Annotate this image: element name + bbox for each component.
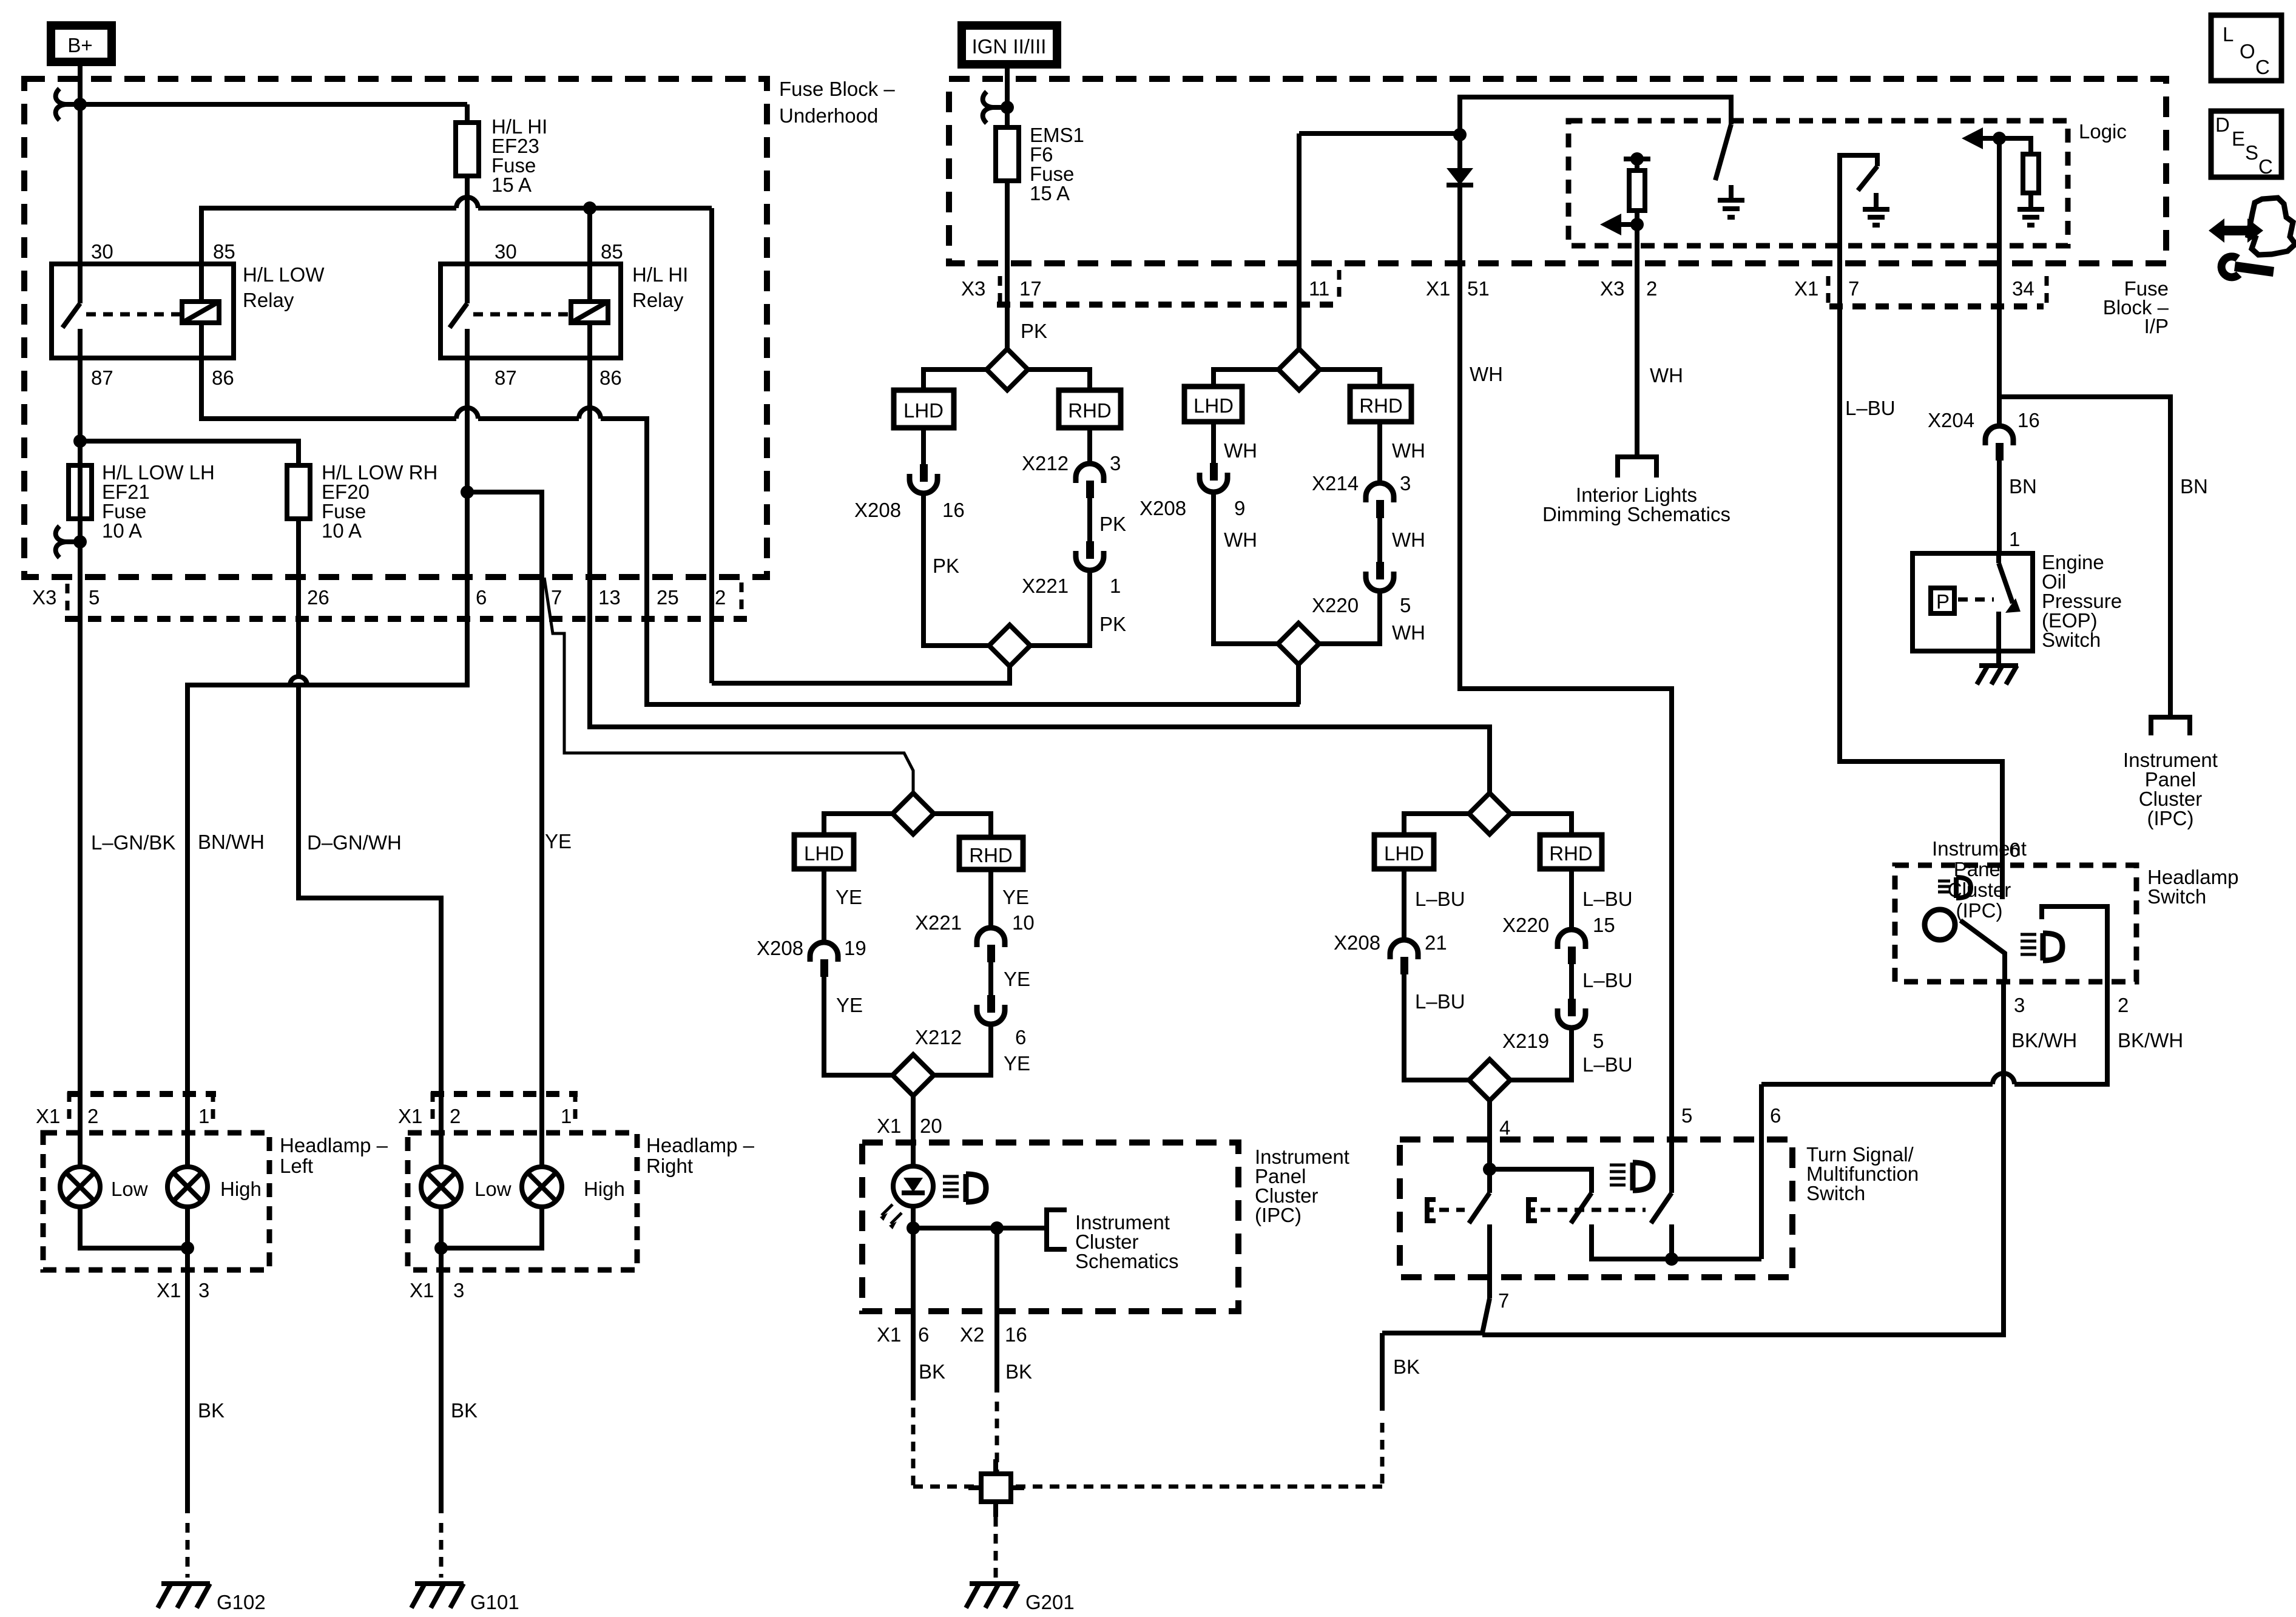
label H/L LOW LH EF21 Fuse 10 A xyxy=(102,461,215,542)
wire YE merge to IPC X1-20 xyxy=(911,1096,916,1166)
junction dot hi 87 branch xyxy=(461,485,474,499)
wire PK split to RHD xyxy=(1028,370,1090,390)
svg-text:L–BU: L–BU xyxy=(1582,1053,1633,1076)
svg-text:RHD: RHD xyxy=(1068,399,1112,422)
wire WH node up and right to logic switch xyxy=(1460,97,1731,135)
EOP switch blade with arrow xyxy=(1999,553,2021,651)
B+ power terminal box xyxy=(51,25,112,62)
junction dot B+ node xyxy=(73,98,87,111)
svg-text:51: 51 xyxy=(1467,277,1490,300)
hi relay linkage dashes xyxy=(473,312,569,317)
svg-text:BK: BK xyxy=(1393,1355,1420,1378)
labels X208 19 xyxy=(757,937,866,959)
svg-text:L–GN/BK: L–GN/BK xyxy=(91,831,175,854)
svg-text:Dimming Schematics: Dimming Schematics xyxy=(1542,503,1730,525)
svg-text:X220: X220 xyxy=(1502,914,1549,936)
svg-text:85: 85 xyxy=(213,240,235,263)
svg-text:BK/WH: BK/WH xyxy=(2011,1029,2077,1052)
RHD box YE xyxy=(959,837,1023,869)
wire X214-3 to X220-5 xyxy=(1377,518,1382,562)
L-BU split diamond xyxy=(1469,793,1510,834)
svg-text:P: P xyxy=(1936,590,1950,613)
svg-text:WH: WH xyxy=(1650,364,1683,387)
svg-text:2: 2 xyxy=(2118,994,2129,1016)
svg-text:10: 10 xyxy=(1012,911,1035,934)
svg-text:High: High xyxy=(220,1178,262,1200)
splice stubs xyxy=(968,1459,1024,1517)
svg-text:2: 2 xyxy=(87,1105,98,1127)
svg-text:2: 2 xyxy=(715,586,726,609)
svg-text:X1: X1 xyxy=(877,1115,901,1137)
double arrow icon xyxy=(2209,218,2263,243)
dashed BK to G102 xyxy=(186,1523,190,1578)
svg-text:I/P: I/P xyxy=(2144,315,2169,337)
labels X208 21 xyxy=(1334,931,1447,954)
X3 connector tick right of pin 2 xyxy=(740,582,744,609)
ticks headlamp left xyxy=(69,1092,213,1119)
labels X220 5 xyxy=(1312,594,1411,616)
svg-text:YE: YE xyxy=(1004,968,1030,990)
svg-text:10 A: 10 A xyxy=(322,519,362,542)
EOP linkage dashes xyxy=(1958,598,1994,602)
clip symbol below EF21 xyxy=(56,526,80,558)
svg-text:25: 25 xyxy=(657,586,679,609)
wire branch to cluster bracket xyxy=(913,1226,1047,1230)
svg-text:20: 20 xyxy=(920,1115,942,1137)
wire IGN stem xyxy=(1005,64,1010,127)
svg-text:Schematics: Schematics xyxy=(1075,1250,1179,1272)
low relay pin labels 30 85 87 86 xyxy=(91,240,235,389)
wire X204 to EOP pin 1 xyxy=(1997,461,2002,553)
headlamp switch dashed box xyxy=(1895,865,2136,982)
svg-text:L: L xyxy=(2223,23,2234,46)
wire L-BU X1-7 down to headlamp switch xyxy=(1840,269,2002,899)
HS lamp circle xyxy=(1925,910,1955,940)
labels X219 5 xyxy=(1502,1030,1604,1052)
fuse block I/P dashed box xyxy=(949,79,2166,263)
X3 connector row dotted line left xyxy=(65,616,747,622)
svg-text:6: 6 xyxy=(1015,1026,1026,1048)
diode on WH to X1-51 xyxy=(1447,135,1473,269)
wire pin 11 down to WH split xyxy=(1297,133,1302,349)
svg-text:Left: Left xyxy=(280,1155,313,1177)
svg-text:IGN II/III: IGN II/III xyxy=(972,35,1047,58)
hi relay 85 stub xyxy=(587,208,592,264)
X3 connector tick left xyxy=(66,584,70,610)
LOC box xyxy=(2211,15,2281,81)
low relay coil xyxy=(182,264,219,358)
svg-text:Right: Right xyxy=(646,1155,693,1177)
svg-text:BK/WH: BK/WH xyxy=(2118,1029,2183,1052)
connector X220-15 xyxy=(1558,930,1585,964)
chassis ground G102 xyxy=(158,1584,210,1608)
pin labels X1 51 xyxy=(1426,277,1490,300)
svg-text:1: 1 xyxy=(561,1105,572,1127)
junction dot BN node xyxy=(1993,132,2006,145)
svg-text:BK: BK xyxy=(919,1360,945,1383)
svg-text:G101: G101 xyxy=(470,1591,519,1613)
labels BK/WH xyxy=(2011,1029,2183,1052)
svg-text:G201: G201 xyxy=(1025,1591,1075,1613)
junction dot logic resistor bottom xyxy=(1630,218,1644,231)
svg-text:G102: G102 xyxy=(217,1591,266,1613)
junction dot left lamp xyxy=(181,1241,194,1255)
connector outline icon xyxy=(2248,198,2295,255)
connector X220-5 xyxy=(1366,562,1394,591)
svg-text:1: 1 xyxy=(1110,575,1121,597)
svg-text:X221: X221 xyxy=(1022,575,1069,597)
MF switch blade 2 xyxy=(1571,1193,1592,1223)
wire hi relay 87 to pin 6 then left high lamp xyxy=(187,358,467,1167)
pin labels X3 2 xyxy=(1600,277,1657,300)
svg-text:X212: X212 xyxy=(1022,452,1069,474)
wire YE split to RHD xyxy=(934,814,991,837)
wire pin 13 net to L-BU split (already drawn) label none xyxy=(0,0,1,1)
wire X208-9 to WH merge xyxy=(1214,492,1278,644)
svg-text:D–GN/WH: D–GN/WH xyxy=(307,831,402,854)
labels X208 9 xyxy=(1140,497,1245,519)
P box inside EOP xyxy=(1931,588,1954,613)
svg-text:X1: X1 xyxy=(36,1105,60,1127)
H/L HI relay box xyxy=(441,264,621,358)
bulb low right xyxy=(421,1167,461,1207)
chassis ground G201 xyxy=(966,1584,1018,1608)
wire MF pin4 node xyxy=(1490,1169,1592,1193)
junction dot X2-16 branch xyxy=(990,1221,1004,1235)
svg-text:17: 17 xyxy=(1019,277,1042,300)
svg-text:YE: YE xyxy=(1002,886,1029,908)
headlamp left connector dotted xyxy=(67,1091,216,1097)
wire 86 net low relay to pin 25 with hops xyxy=(201,358,1300,704)
svg-text:16: 16 xyxy=(2017,409,2040,431)
svg-text:L–BU: L–BU xyxy=(1582,969,1633,991)
H/L LOW relay box xyxy=(52,264,234,358)
svg-text:L–BU: L–BU xyxy=(1582,888,1633,910)
svg-text:X208: X208 xyxy=(757,937,803,959)
wire X3-2 down to interior lights xyxy=(1635,224,1639,457)
svg-text:3: 3 xyxy=(198,1279,209,1301)
label H/L HI Relay xyxy=(632,263,688,311)
svg-text:X2: X2 xyxy=(960,1323,984,1346)
headlamp right connector dotted xyxy=(431,1091,578,1097)
wire X2-16 down xyxy=(994,1228,999,1393)
svg-text:13: 13 xyxy=(598,586,621,609)
svg-text:87: 87 xyxy=(91,366,113,389)
connector X208-21 xyxy=(1390,940,1418,974)
svg-text:LHD: LHD xyxy=(1194,394,1234,417)
svg-text:X208: X208 xyxy=(1334,931,1380,954)
svg-text:7: 7 xyxy=(1848,277,1859,300)
IPC bracket right xyxy=(2151,717,2190,735)
connector X221-10 xyxy=(977,928,1005,962)
wire BK down to G201 dashes xyxy=(1380,1333,1385,1411)
fuse EF21 xyxy=(69,465,92,519)
svg-text:7: 7 xyxy=(551,586,562,609)
RHD box PK xyxy=(1059,390,1121,428)
WH split diamond xyxy=(1278,349,1320,390)
IGN II/III power terminal box xyxy=(962,25,1057,64)
hi relay switch stub and blade xyxy=(450,264,467,358)
MF switch blade 3 xyxy=(1651,1193,1672,1223)
bulb high left xyxy=(167,1167,208,1207)
wire X208-16 to PK merge xyxy=(923,493,988,646)
wire PK merge to pin 2 xyxy=(712,666,1010,683)
svg-text:6: 6 xyxy=(1770,1104,1781,1127)
label H/L HI EF23 Fuse 15 A xyxy=(491,115,547,196)
wire WH merge down to pin 25 line xyxy=(1296,664,1301,704)
label H/L LOW RH EF20 Fuse 10 A xyxy=(322,461,437,542)
YE merge diamond xyxy=(893,1055,934,1096)
RHD box WH xyxy=(1350,387,1411,422)
svg-text:86: 86 xyxy=(599,366,622,389)
connector X214-3 xyxy=(1366,483,1394,518)
svg-text:7: 7 xyxy=(1498,1289,1509,1312)
svg-text:2: 2 xyxy=(450,1105,461,1127)
G201 splice square xyxy=(981,1474,1011,1502)
svg-text:Low: Low xyxy=(474,1178,512,1200)
svg-text:BN/WH: BN/WH xyxy=(198,831,265,853)
svg-text:X220: X220 xyxy=(1312,594,1359,616)
svg-text:1: 1 xyxy=(198,1105,209,1127)
wire WH RHD to X214-3 xyxy=(1377,422,1382,483)
logic dashed box xyxy=(1568,121,2068,246)
wire WH LHD to X208-9 xyxy=(1211,422,1216,463)
wire thin YE jog from pin7 to YE diamond xyxy=(544,578,913,793)
svg-text:15 A: 15 A xyxy=(1030,182,1070,204)
svg-text:BN: BN xyxy=(2009,475,2037,498)
ticks headlamp right xyxy=(433,1092,575,1119)
fuse EMS1 F6 xyxy=(996,127,1019,181)
svg-text:C: C xyxy=(2255,56,2270,78)
svg-text:BK: BK xyxy=(451,1399,478,1422)
wire L-BU split to LHD xyxy=(1404,814,1469,835)
label Headlamp - Left xyxy=(280,1134,388,1177)
svg-text:WH: WH xyxy=(1392,621,1425,644)
svg-text:Logic: Logic xyxy=(2079,120,2127,143)
bulb high right xyxy=(522,1167,562,1207)
logic resistor left xyxy=(1629,159,1645,224)
svg-text:X1: X1 xyxy=(877,1323,901,1346)
svg-text:BK: BK xyxy=(1005,1360,1032,1383)
svg-text:3: 3 xyxy=(1400,472,1411,495)
wire X219-5 to L-BU merge xyxy=(1510,1028,1572,1080)
svg-text:Switch: Switch xyxy=(1806,1182,1865,1204)
svg-text:BK: BK xyxy=(198,1399,225,1422)
pin labels X1 2 1 left xyxy=(36,1105,209,1127)
svg-text:X1: X1 xyxy=(157,1279,181,1301)
svg-text:Fuse Block –: Fuse Block – xyxy=(779,78,895,100)
wire X220-5 to WH merge xyxy=(1319,591,1380,644)
label Instrument Cluster Schematics xyxy=(1075,1211,1179,1272)
wire MF pin7 jog to BK line xyxy=(1482,1298,1490,1333)
svg-text:H/L LOW: H/L LOW xyxy=(243,263,325,286)
svg-text:LHD: LHD xyxy=(1384,842,1424,865)
HS switch blade xyxy=(1960,920,2005,982)
wire PK split to LHD xyxy=(923,370,987,390)
svg-text:YE: YE xyxy=(836,886,862,908)
svg-text:Low: Low xyxy=(111,1178,148,1200)
svg-text:Switch: Switch xyxy=(2147,885,2206,908)
fuse EF20 xyxy=(287,465,310,519)
E linkage dashes 2 xyxy=(1541,1208,1646,1212)
dashed BK IPC to splice xyxy=(913,1402,1382,1487)
svg-text:85: 85 xyxy=(601,240,623,263)
svg-text:86: 86 xyxy=(212,366,234,389)
svg-text:YE: YE xyxy=(545,830,572,852)
wire X212-6 to YE merge xyxy=(934,1024,991,1075)
E symbol 1 xyxy=(1427,1200,1436,1221)
labels X208 16 xyxy=(854,499,965,521)
EOP switch box xyxy=(1913,553,2033,651)
chassis ground G101 xyxy=(411,1584,464,1608)
label Headlamp Switch xyxy=(2147,866,2238,908)
svg-text:5: 5 xyxy=(1400,594,1411,616)
svg-text:X208: X208 xyxy=(1140,497,1186,519)
tick pin 34 xyxy=(2045,276,2049,303)
wire low relay 87 to pin 5 xyxy=(78,358,83,1167)
svg-text:X204: X204 xyxy=(1928,409,1974,431)
svg-text:11: 11 xyxy=(1309,277,1329,300)
E symbol 2 xyxy=(1528,1200,1537,1221)
svg-text:RHD: RHD xyxy=(1359,394,1403,417)
fuse block underhood dashed box xyxy=(24,79,767,577)
label Fuse Block - Underhood xyxy=(779,78,895,127)
connector X208-9 xyxy=(1200,463,1227,492)
wire YE LHD to X208-19 xyxy=(822,869,826,942)
label Instrument Panel Cluster IPC right xyxy=(2123,749,2218,829)
pin labels X1 2 1 right xyxy=(398,1105,572,1127)
hi relay coil xyxy=(571,264,608,358)
svg-text:C: C xyxy=(2258,155,2273,178)
WH merge diamond xyxy=(1278,623,1319,664)
svg-text:Headlamp –: Headlamp – xyxy=(646,1134,755,1156)
svg-text:21: 21 xyxy=(1425,931,1447,954)
svg-text:30: 30 xyxy=(495,240,517,263)
svg-text:10 A: 10 A xyxy=(102,519,142,542)
pin labels X1 3 right xyxy=(410,1279,464,1301)
junction dot below EF21 xyxy=(73,535,87,549)
svg-text:19: 19 xyxy=(844,937,866,959)
dashed BK to G101 xyxy=(439,1523,444,1578)
svg-text:Relay: Relay xyxy=(243,289,294,311)
HS pin labels 3 2 xyxy=(2014,994,2129,1016)
wire LHD to X208-21 xyxy=(1402,869,1406,940)
labels X204 16 xyxy=(1928,409,2040,431)
PK merge diamond xyxy=(989,625,1030,666)
wire MF lower contacts bus xyxy=(1490,1084,1761,1298)
labels X221 10 xyxy=(915,911,1035,934)
svg-text:15 A: 15 A xyxy=(491,174,532,196)
svg-text:9: 9 xyxy=(1234,497,1245,519)
svg-text:O: O xyxy=(2240,40,2255,62)
svg-text:X1: X1 xyxy=(410,1279,434,1301)
wire hi 87 branch to pin 7 xyxy=(467,492,542,1167)
pin labels X1 3 left xyxy=(157,1279,209,1301)
wires bulbs to X1-3 left xyxy=(80,1207,187,1513)
label Interior Lights Dimming Schematics xyxy=(1542,484,1730,525)
wire hi relay 86 to pin 13 xyxy=(590,358,1490,793)
E linkage dashes 1 xyxy=(1439,1208,1465,1212)
labels X220 15 xyxy=(1502,914,1615,936)
label Engine Oil Pressure EOP Switch xyxy=(2042,551,2122,651)
low relay switch stub and blade xyxy=(62,264,80,358)
turn signal multifunction switch dashed box xyxy=(1400,1139,1792,1277)
svg-text:5: 5 xyxy=(1681,1104,1692,1127)
LED high beam indicator xyxy=(880,1166,933,1229)
svg-text:30: 30 xyxy=(91,240,113,263)
high beam icon MF xyxy=(1610,1163,1653,1190)
svg-text:Switch: Switch xyxy=(2042,629,2101,651)
IPC middle dashed box xyxy=(862,1143,1238,1311)
wire B+ down to low relay 30 xyxy=(78,104,83,264)
earth ground logic WH switch xyxy=(1718,185,1744,217)
wire B+ stem to junction xyxy=(78,66,83,104)
svg-text:Headlamp –: Headlamp – xyxy=(280,1134,388,1156)
svg-text:X3: X3 xyxy=(32,586,56,609)
svg-text:PK: PK xyxy=(1099,613,1126,635)
high beam icon HS xyxy=(2021,933,2062,960)
chassis ground EOP xyxy=(1977,651,2018,684)
svg-text:34: 34 xyxy=(2012,277,2034,300)
logic arrow left BN node xyxy=(1962,127,1999,149)
svg-text:6: 6 xyxy=(918,1323,929,1346)
label Turn Signal Multifunction Switch xyxy=(1806,1143,1919,1204)
wire MF pin5 from top (drawn) xyxy=(0,0,1,1)
junction dot hi relay 85 xyxy=(583,201,596,215)
wire 85 net horizontal with hop over EF23 wire xyxy=(201,197,712,264)
svg-text:6: 6 xyxy=(476,586,487,609)
wire EF20 to pin 26 then right low lamp xyxy=(290,519,441,1167)
connector X212-6 xyxy=(977,995,1005,1024)
wire RHD to X212-3 xyxy=(1087,428,1092,464)
connector X212-3 xyxy=(1076,464,1104,498)
wire X208-21 to L-BU merge xyxy=(1404,974,1470,1080)
svg-text:(IPC): (IPC) xyxy=(1956,899,2003,922)
PK split diamond xyxy=(987,349,1028,390)
svg-text:L–BU: L–BU xyxy=(1415,990,1465,1013)
svg-text:LHD: LHD xyxy=(804,842,844,865)
wire color labels left stack xyxy=(91,830,572,854)
svg-text:PK: PK xyxy=(933,555,959,577)
svg-text:L–BU: L–BU xyxy=(1845,397,1896,419)
tick X3-17 xyxy=(998,276,1002,303)
bulb low left xyxy=(60,1167,100,1207)
svg-text:Relay: Relay xyxy=(632,289,684,311)
svg-text:(IPC): (IPC) xyxy=(1255,1204,1302,1226)
wire B+ top horizontal to EF23 xyxy=(80,104,467,123)
dashed splice to G201 xyxy=(994,1517,998,1578)
svg-text:4: 4 xyxy=(1499,1116,1510,1139)
svg-text:High: High xyxy=(584,1178,625,1200)
svg-text:X1: X1 xyxy=(1794,277,1818,300)
wire WH split to LHD xyxy=(1214,370,1278,387)
wire X208-19 to YE merge xyxy=(824,977,893,1075)
logic switch blade WH xyxy=(1715,124,1731,180)
labels X212 6 xyxy=(915,1026,1026,1048)
svg-text:PK: PK xyxy=(1099,513,1126,535)
svg-text:X219: X219 xyxy=(1502,1030,1549,1052)
svg-text:WH: WH xyxy=(1392,439,1425,462)
svg-text:26: 26 xyxy=(307,586,329,609)
RHD box L-BU xyxy=(1540,835,1602,869)
wire X221-1 to PK merge xyxy=(1029,570,1090,646)
wire X212-3 to X221-1 xyxy=(1087,498,1092,541)
connector X219-5 xyxy=(1558,999,1585,1028)
wire L-BU split to RHD xyxy=(1510,814,1572,835)
svg-text:X214: X214 xyxy=(1312,472,1359,495)
logic switch blade L-BU xyxy=(1858,166,1877,191)
hi relay pin labels 30 85 87 86 xyxy=(495,240,623,389)
